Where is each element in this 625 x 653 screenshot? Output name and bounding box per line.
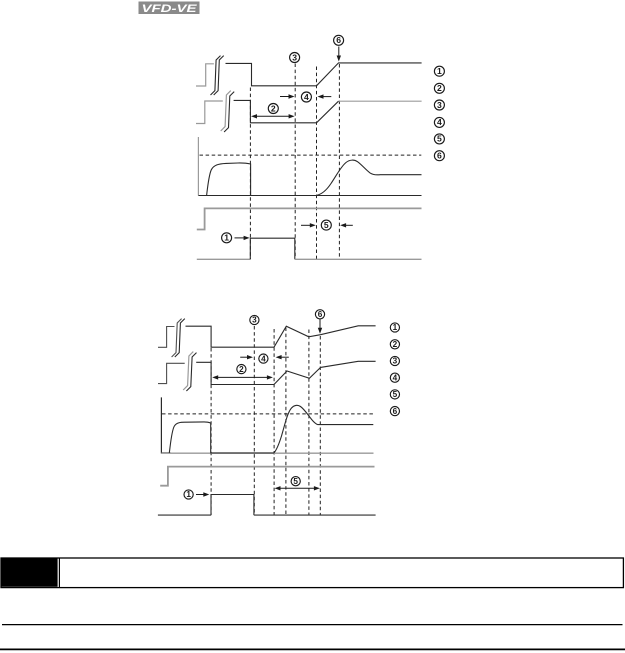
svg-text:5: 5 <box>293 477 298 486</box>
svg-text:1: 1 <box>224 233 229 243</box>
svg-text:2: 2 <box>239 365 244 374</box>
svg-text:5: 5 <box>437 134 442 144</box>
svg-text:4: 4 <box>304 92 309 102</box>
svg-text:1: 1 <box>186 490 191 499</box>
svg-text:3: 3 <box>393 357 398 366</box>
svg-text:2: 2 <box>437 83 442 93</box>
svg-text:6: 6 <box>393 407 398 416</box>
svg-text:VFD-VE: VFD-VE <box>142 3 198 15</box>
svg-text:3: 3 <box>437 100 442 110</box>
svg-text:1: 1 <box>437 66 442 76</box>
svg-text:6: 6 <box>336 35 341 45</box>
svg-text:4: 4 <box>261 354 266 363</box>
svg-text:4: 4 <box>393 373 398 382</box>
svg-text:3: 3 <box>292 52 297 62</box>
svg-text:5: 5 <box>324 220 329 230</box>
svg-text:2: 2 <box>271 103 276 113</box>
svg-text:3: 3 <box>252 316 257 325</box>
svg-text:6: 6 <box>437 151 442 161</box>
svg-text:1: 1 <box>393 323 398 332</box>
svg-text:4: 4 <box>437 117 442 127</box>
svg-text:2: 2 <box>393 340 398 349</box>
svg-text:5: 5 <box>393 390 398 399</box>
svg-text:6: 6 <box>318 310 323 319</box>
